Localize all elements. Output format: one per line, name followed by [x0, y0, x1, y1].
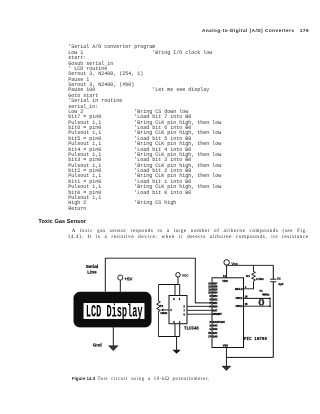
wire TLC548 DATA to PIC — [187, 313, 212, 315]
svg-text:Line: Line — [87, 270, 97, 275]
svg-text:VCC: VCC — [182, 274, 189, 278]
svg-text:RB1: RB1 — [213, 303, 218, 305]
svg-text:RB7: RB7 — [213, 284, 218, 286]
svg-text:Serial: Serial — [86, 264, 99, 269]
svg-text:RB4: RB4 — [213, 292, 218, 295]
wire C1 rail top — [272, 265, 274, 279]
ground (TLC548, solid triangle) — [172, 350, 180, 354]
wire VCC rail to pot top — [159, 284, 180, 286]
potentiometer P1 10k — [157, 285, 160, 337]
svg-text:6: 6 — [210, 305, 212, 308]
node junction dot OSC2 — [269, 305, 271, 307]
resistor R1 4.7k — [252, 265, 255, 282]
svg-text:RB2: RB2 — [213, 299, 218, 301]
wire +5V to LCD — [119, 280, 121, 292]
svg-text:VSS: VSS — [223, 344, 228, 348]
svg-text:8: 8 — [210, 298, 212, 301]
wire VCC circle down — [177, 277, 179, 285]
power Vcc at PIC — [224, 260, 229, 265]
wire resonator right leg — [269, 298, 271, 306]
svg-text:RA2: RA2 — [213, 328, 218, 331]
svg-text:RB5: RB5 — [213, 290, 218, 292]
ground (PIC, arrow style) — [222, 366, 230, 370]
pin 1 REF+ stub — [179, 285, 181, 296]
wire pot wiper to TLC548 pin 2 — [162, 309, 169, 311]
svg-text:RB0: RB0 — [213, 306, 218, 308]
wire to ground — [176, 337, 178, 351]
wire Vcc distribution line — [227, 264, 274, 266]
pin 4 GND stub — [179, 324, 181, 337]
svg-text:2: 2 — [210, 325, 212, 328]
svg-text:PIC 16F88: PIC 16F88 — [244, 338, 267, 342]
wire VSS down — [225, 348, 227, 367]
svg-text:4.7kΩ: 4.7kΩ — [256, 277, 264, 281]
svg-text:RA7: RA7 — [213, 309, 218, 312]
section heading — [38, 220, 86, 226]
svg-text:OSC1: OSC1 — [236, 296, 244, 300]
wire C1 rail bottom — [272, 282, 274, 358]
capacitor C1 .1uF — [270, 278, 276, 280]
ground (LCD, arrow style) — [109, 346, 118, 351]
wire bottom join — [159, 336, 180, 338]
wire TLC548 CLK to PIC — [187, 309, 212, 311]
svg-text:3: 3 — [210, 321, 212, 324]
svg-text:.1µF: .1µF — [278, 282, 284, 286]
svg-text:RB6: RB6 — [213, 287, 218, 289]
svg-text:Gnd: Gnd — [93, 342, 102, 347]
svg-text:17: 17 — [208, 335, 211, 338]
pin 3 stub — [174, 324, 176, 337]
power +5V supply — [118, 275, 123, 280]
svg-text:10kΩ: 10kΩ — [160, 311, 168, 315]
svg-text:4MHz: 4MHz — [262, 292, 270, 296]
svg-text:MCLR: MCLR — [235, 287, 243, 291]
wire LCD to ground — [112, 327, 114, 346]
A/D converter U2 TLC548 — [169, 296, 187, 324]
svg-text:RA3: RA3 — [213, 325, 218, 328]
svg-text:C1: C1 — [277, 277, 281, 281]
power VCC at TLC548 — [176, 273, 180, 277]
svg-text:OSC2: OSC2 — [236, 304, 244, 308]
svg-text:TLC548: TLC548 — [184, 328, 199, 332]
wire OSC2 to resonator — [244, 305, 271, 307]
figure schematic — [0, 250, 320, 376]
svg-text:R1: R1 — [246, 274, 250, 278]
pin 8 VCC stub — [174, 285, 176, 296]
figure caption — [72, 376, 210, 382]
svg-text:RB3: RB3 — [213, 296, 218, 298]
svg-text:1: 1 — [210, 328, 212, 331]
program listing — [68, 45, 221, 212]
running head — [202, 29, 312, 34]
LCD module (LCD Display) — [74, 292, 152, 328]
svg-text:RB0/INT: RB0/INT — [213, 314, 223, 316]
svg-text:RA1: RA1 — [213, 332, 218, 335]
microcontroller U1 PIC 16F88 — [212, 278, 244, 348]
svg-text:LCD Display: LCD Display — [86, 304, 143, 323]
wire VSS rail to C1 rail — [226, 356, 273, 358]
wire TLC548 CS to PIC — [187, 305, 212, 307]
body paragraph line 1 — [72, 229, 308, 234]
svg-text:15: 15 — [245, 303, 248, 306]
svg-text:RA0: RA0 — [213, 335, 218, 338]
svg-text:P1: P1 — [160, 304, 164, 308]
svg-text:RA4/T0CKI: RA4/T0CKI — [213, 321, 225, 324]
wire MCLR to R1 — [244, 282, 254, 288]
wire serial line from LCD to PIC — [105, 258, 212, 303]
wire OSC1 to resonator — [244, 297, 271, 299]
svg-text:VDD: VDD — [222, 279, 228, 283]
body paragraph line 2 — [68, 235, 309, 240]
node junction dot OSC1 — [269, 298, 271, 300]
wire Vcc to VDD pin 14 — [226, 265, 228, 278]
svg-text:+5V: +5V — [124, 276, 132, 281]
